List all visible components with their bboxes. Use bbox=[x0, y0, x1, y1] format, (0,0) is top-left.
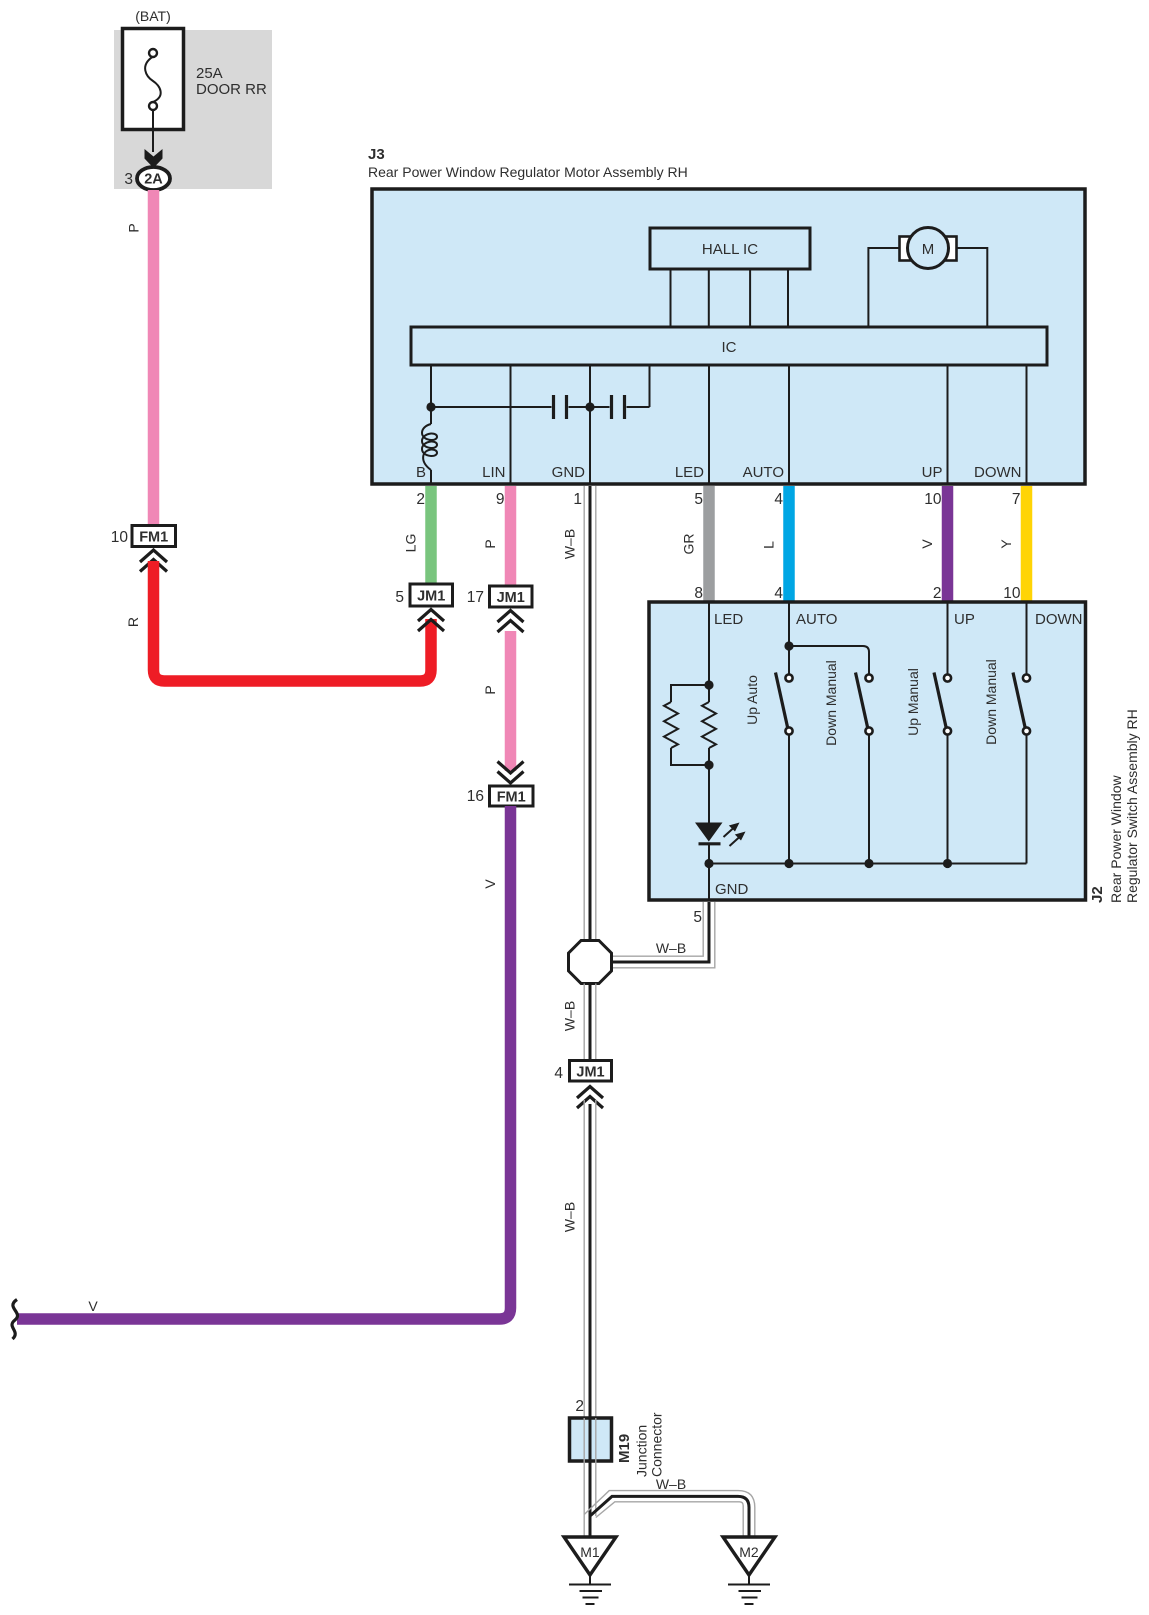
motor M wires bbox=[868, 248, 901, 327]
connector JM1 (5) bbox=[410, 584, 453, 606]
svg-text:UP: UP bbox=[922, 464, 943, 481]
svg-text:M19: M19 bbox=[616, 1434, 633, 1463]
node rail UP bbox=[943, 859, 952, 868]
svg-text:L: L bbox=[761, 541, 777, 549]
resistor R-left bbox=[664, 702, 678, 748]
svg-text:LG: LG bbox=[403, 534, 419, 553]
junction connector M19 bbox=[570, 1418, 612, 1461]
capacitor C2 bbox=[610, 395, 613, 419]
svg-text:5: 5 bbox=[693, 909, 702, 926]
svg-text:M1: M1 bbox=[580, 1544, 600, 1560]
DOWN line internal bbox=[1026, 602, 1028, 675]
arrow into connector 2A bbox=[145, 149, 163, 168]
capacitor C1 bbox=[552, 395, 555, 419]
wire P pink bbox=[148, 190, 160, 526]
svg-text:HALL IC: HALL IC bbox=[702, 241, 758, 258]
wire to LED bbox=[708, 765, 710, 823]
svg-text:4: 4 bbox=[554, 1065, 563, 1082]
svg-text:9: 9 bbox=[496, 491, 505, 508]
svg-text:17: 17 bbox=[467, 589, 484, 606]
switch Up Manual bbox=[934, 673, 951, 864]
svg-text:M2: M2 bbox=[739, 1544, 759, 1560]
chevron under JM1(5) bbox=[418, 610, 444, 622]
inductor coil on B line bbox=[422, 424, 437, 470]
block J2 Rear Power Window Regulator Switch Assembly RH bbox=[649, 602, 1086, 900]
svg-text:JM1: JM1 bbox=[497, 590, 525, 606]
wire W-B branch to M2 bbox=[584, 1491, 755, 1537]
svg-text:Up Manual: Up Manual bbox=[905, 668, 921, 736]
wire LG green stub bbox=[425, 486, 437, 585]
svg-text:DOWN: DOWN bbox=[974, 464, 1022, 481]
svg-text:1: 1 bbox=[573, 491, 582, 508]
svg-text:LED: LED bbox=[714, 611, 743, 628]
svg-text:5: 5 bbox=[694, 491, 703, 508]
svg-text:W–B: W–B bbox=[562, 529, 578, 559]
svg-text:Down Manual: Down Manual bbox=[823, 660, 839, 746]
svg-text:GR: GR bbox=[681, 534, 697, 555]
chevron above FM1(16) pointing down bbox=[498, 762, 524, 774]
fuse block background bbox=[114, 30, 272, 189]
switch Down Manual 1 bbox=[856, 673, 873, 864]
IC box bbox=[411, 327, 1047, 365]
svg-text:(BAT): (BAT) bbox=[135, 8, 171, 24]
pin line AUTO internal bbox=[788, 365, 790, 484]
AUTO line internal bbox=[788, 602, 790, 675]
wire R red bbox=[154, 561, 432, 681]
LED emission arrows bbox=[724, 823, 746, 847]
wire from fuse to connector bbox=[152, 110, 154, 152]
svg-text:2A: 2A bbox=[144, 172, 163, 188]
wire W-B M19 to M1 bbox=[584, 1461, 596, 1537]
svg-text:4: 4 bbox=[774, 491, 783, 508]
wire P pink middle bbox=[505, 631, 517, 771]
connector 2A oval bbox=[137, 167, 170, 190]
node rail DM1 bbox=[864, 859, 873, 868]
svg-text:Rear Power Window: Rear Power Window bbox=[1108, 775, 1124, 903]
svg-text:25A: 25A bbox=[196, 65, 223, 82]
junction octagon bbox=[569, 941, 612, 984]
svg-text:P: P bbox=[126, 223, 142, 232]
pin line DOWN internal bbox=[1026, 365, 1028, 484]
connector JM1 (17) bbox=[490, 586, 533, 607]
svg-text:10: 10 bbox=[924, 491, 942, 508]
wire GR gray stub bbox=[703, 486, 715, 603]
connector FM1 (10) bbox=[132, 526, 176, 547]
chevron under JM1(17) bbox=[498, 611, 524, 623]
svg-text:V: V bbox=[919, 539, 935, 549]
svg-text:AUTO: AUTO bbox=[796, 611, 837, 628]
motor M brushes bbox=[900, 237, 911, 261]
svg-text:5: 5 bbox=[395, 589, 404, 606]
svg-text:LED: LED bbox=[675, 464, 704, 481]
svg-text:AUTO: AUTO bbox=[743, 464, 784, 481]
capacitor link wire bbox=[431, 406, 552, 408]
wire L blue stub bbox=[783, 486, 795, 603]
capacitor drop line bbox=[649, 365, 651, 407]
svg-text:J2: J2 bbox=[1089, 886, 1106, 903]
svg-text:M: M bbox=[922, 241, 935, 258]
block J3 Rear Power Window Regulator Motor Assembly RH bbox=[372, 189, 1085, 484]
svg-text:W–B: W–B bbox=[562, 1001, 578, 1031]
switch Up Auto bbox=[776, 673, 793, 864]
svg-text:Regulator Switch Assembly RH: Regulator Switch Assembly RH bbox=[1124, 709, 1140, 903]
LED line internal bbox=[708, 602, 710, 685]
pin line B internal bbox=[430, 365, 432, 424]
GND rail inside J2 bbox=[709, 863, 1027, 865]
svg-text:Connector: Connector bbox=[649, 1412, 665, 1477]
ground M2 bbox=[723, 1537, 775, 1604]
svg-text:V: V bbox=[88, 1298, 98, 1314]
resistor R-right bbox=[708, 685, 710, 702]
svg-text:FM1: FM1 bbox=[497, 790, 526, 806]
svg-text:GND: GND bbox=[715, 881, 749, 898]
svg-text:P: P bbox=[482, 685, 498, 694]
UP line internal bbox=[947, 602, 949, 675]
pin line LED internal bbox=[708, 365, 710, 484]
connector FM1 (16) bbox=[490, 786, 534, 806]
hall ic legs bbox=[670, 269, 672, 327]
svg-text:W–B: W–B bbox=[562, 1202, 578, 1232]
pin line LIN internal bbox=[510, 365, 512, 484]
wire V purple long bbox=[17, 806, 511, 1319]
GND line to pin 5 bbox=[708, 864, 710, 901]
wire W-B from J2 pin5 bbox=[612, 902, 715, 968]
wire W-B from GND pin1 bbox=[584, 486, 596, 941]
wire W-B JM1(4) to M19 bbox=[584, 1100, 596, 1418]
svg-text:LIN: LIN bbox=[482, 464, 505, 481]
svg-text:GND: GND bbox=[552, 464, 586, 481]
svg-text:4: 4 bbox=[774, 585, 783, 602]
svg-text:W–B: W–B bbox=[656, 940, 686, 956]
node on GND line bbox=[585, 402, 594, 411]
svg-text:Y: Y bbox=[998, 539, 1014, 549]
svg-text:Rear Power Window Regulator Mo: Rear Power Window Regulator Motor Assemb… bbox=[368, 164, 688, 180]
motor M bbox=[908, 228, 949, 269]
svg-text:2: 2 bbox=[933, 585, 942, 602]
svg-text:Down Manual: Down Manual bbox=[983, 659, 999, 745]
connector JM1 (4) bbox=[570, 1061, 612, 1082]
svg-text:UP: UP bbox=[954, 611, 975, 628]
node rail LED bbox=[704, 859, 713, 868]
svg-text:FM1: FM1 bbox=[139, 530, 168, 546]
svg-text:DOWN: DOWN bbox=[1035, 611, 1083, 628]
wire P pink stub pin9 bbox=[505, 486, 517, 587]
svg-text:W–B: W–B bbox=[656, 1476, 686, 1492]
wire W-B octagon to JM1(4) bbox=[584, 984, 596, 1061]
node resistor bottom bbox=[704, 760, 713, 769]
svg-text:2: 2 bbox=[416, 491, 425, 508]
svg-text:8: 8 bbox=[694, 585, 703, 602]
svg-text:7: 7 bbox=[1012, 491, 1021, 508]
svg-text:Junction: Junction bbox=[634, 1425, 650, 1477]
svg-text:2: 2 bbox=[575, 1398, 584, 1415]
switch Down Manual 2 bbox=[1013, 673, 1030, 864]
svg-text:B: B bbox=[416, 464, 426, 481]
resistor pair left branch bbox=[671, 685, 709, 702]
svg-text:DOOR RR: DOOR RR bbox=[196, 81, 267, 98]
svg-text:10: 10 bbox=[111, 529, 129, 546]
pin line UP internal bbox=[947, 365, 949, 484]
node rail AUTO bbox=[784, 859, 793, 868]
node AUTO branch bbox=[784, 641, 793, 650]
branch wire to Down Manual switch bbox=[789, 646, 869, 675]
node resistor top bbox=[704, 680, 713, 689]
wire V purple stub bbox=[942, 486, 954, 603]
svg-text:R: R bbox=[125, 617, 141, 627]
svg-text:10: 10 bbox=[1003, 585, 1021, 602]
svg-text:3: 3 bbox=[124, 171, 133, 188]
svg-text:IC: IC bbox=[722, 339, 737, 356]
chevron under JM1(4) bbox=[577, 1087, 603, 1099]
svg-text:JM1: JM1 bbox=[417, 589, 445, 605]
fuse 25A DOOR RR bbox=[123, 29, 184, 130]
LED diode bbox=[695, 823, 723, 842]
ground M1 bbox=[564, 1537, 616, 1604]
node on B line bbox=[426, 402, 435, 411]
svg-text:JM1: JM1 bbox=[576, 1065, 604, 1081]
svg-text:V: V bbox=[482, 879, 498, 889]
wire W-B through M19 bbox=[584, 1418, 596, 1461]
HALL IC box bbox=[650, 228, 810, 269]
pin line GND internal bbox=[589, 365, 591, 484]
wire Y yellow stub bbox=[1021, 486, 1033, 603]
svg-text:P: P bbox=[482, 539, 498, 548]
svg-text:16: 16 bbox=[467, 788, 484, 805]
svg-text:Up Auto: Up Auto bbox=[744, 675, 760, 725]
chevron under FM1(10) bbox=[140, 550, 167, 562]
wire break squiggle bbox=[12, 1300, 18, 1340]
svg-text:J3: J3 bbox=[368, 146, 385, 163]
